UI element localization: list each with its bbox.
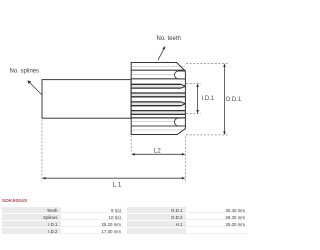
dashed extension gear left vertical	[130, 136, 132, 155]
dashed extension I.D.1 bottom	[186, 112, 201, 114]
dimension L1 line	[42, 177, 185, 180]
leader arrow No. teeth	[158, 46, 165, 60]
gear outline with chamfered right corners	[131, 63, 185, 135]
dashed extension gear right vertical	[184, 136, 186, 182]
leader arrow No. splines	[27, 80, 41, 94]
table row 4: I.D.2	[2, 228, 61, 235]
dimension O.D.1 line	[223, 63, 226, 135]
shaft (splined) body	[42, 80, 131, 119]
table row 2: Splines	[2, 214, 61, 221]
gear teeth lines	[132, 84, 186, 114]
tooth end wedge band A	[181, 84, 185, 88]
dashed extension O.D.1 bottom	[186, 134, 228, 136]
dashed extension O.D.1 top	[186, 62, 228, 64]
table row 3: I.D.1	[2, 221, 61, 228]
dashed extension I.D.1 top	[186, 83, 201, 85]
dimension I.D.1 line	[196, 83, 199, 113]
dashed extension shaft left vertical	[41, 120, 43, 182]
rounded tooth end bottom lobe	[174, 118, 185, 126]
tooth end wedge band C	[181, 102, 185, 106]
table row 1: Teeth	[2, 207, 61, 214]
part number heading	[2, 199, 82, 206]
dimension L2 line	[131, 153, 185, 156]
rounded tooth end top lobe	[174, 71, 185, 79]
